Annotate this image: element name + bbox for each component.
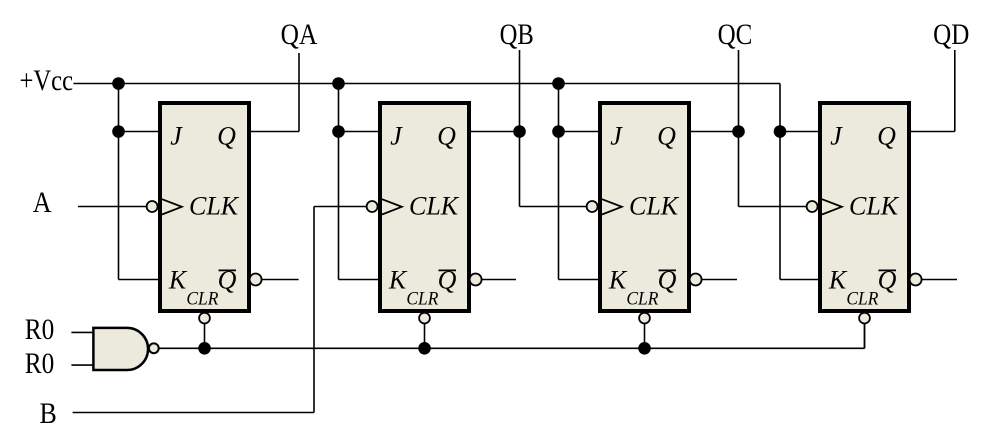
wire Q-bar output stub FF2 [482,279,516,281]
svg-text:CLR: CLR [186,288,218,309]
wire QB net: Q of FF2 to CLK of FF3 [468,131,520,133]
wire J input FF1 [119,131,162,133]
svg-text:A: A [33,186,52,219]
wire Q-bar output stub FF3 [702,279,737,281]
Q-bar output bubble FF3 [690,274,702,286]
wire Q-bar output stub FF4 [922,279,957,281]
node J-FF1 junction [112,125,125,138]
CLK inversion bubble FF4 [807,201,818,212]
svg-text:K: K [388,266,408,295]
svg-text:J: J [610,122,623,151]
Q-bar output bubble FF1 [250,274,262,286]
CLR input bubble FF2 [419,313,430,324]
wire CLR bus from NAND output [159,347,865,349]
CLK inversion bubble FF2 [367,201,378,212]
svg-text:J: J [390,122,403,151]
NAND gate G1 output bubble [149,343,159,353]
node CLR-FF2 junction [418,342,431,355]
JK flip-flop FF3 body [600,103,689,311]
wire QC net: Q of FF3 to CLK of FF4 [688,131,739,133]
Q-bar output bubble FF2 [470,274,482,286]
wire +Vcc rail horizontal [73,83,780,85]
svg-text:B: B [40,397,57,430]
svg-text:J: J [170,122,183,151]
wire K input FF1 [119,279,162,281]
wire J input FF3 [559,131,602,133]
wire Vcc rail down to J/K of FF2 [338,84,340,280]
CLK edge-trigger symbol FF3 [602,199,622,214]
wire QD output tap [908,131,955,133]
wire Q output FF1 [248,131,299,133]
CLR input bubble FF1 [199,313,210,324]
wire R0 input 2 to NAND [71,364,94,366]
wire Vcc rail down to J/K of FF1 [118,84,120,280]
node J-FF4 junction [774,125,787,138]
node QB junction [513,125,526,138]
CLK edge-trigger symbol FF2 [382,199,402,214]
CLK inversion bubble FF1 [147,201,158,212]
JK flip-flop FF1 body [160,103,249,311]
svg-text:Q: Q [217,122,236,151]
Q-bar output bubble FF4 [910,274,922,286]
wire R0 input 1 to NAND [71,331,94,333]
wire CLR stem FF2 [424,324,426,349]
node Vcc-FF1 junction [112,77,125,90]
svg-text:K: K [168,266,188,295]
node QC junction [732,125,745,138]
svg-text:+Vcc: +Vcc [20,64,74,97]
wire QA output tap [298,53,300,132]
svg-text:CLK: CLK [409,192,460,221]
JK flip-flop FF4 body [820,103,909,311]
svg-text:K: K [608,266,628,295]
wire CLR stem FF1 [204,324,206,349]
svg-text:QC: QC [718,18,753,51]
wire CLR stem FF4 [864,324,866,349]
wire K input FF2 [339,279,382,281]
svg-text:R0: R0 [25,313,55,346]
svg-text:QA: QA [281,18,318,51]
wire K input FF4 [780,279,821,281]
svg-text:Q: Q [437,122,456,151]
node J-FF2 junction [332,125,345,138]
NAND gate G1 body [93,328,148,370]
CLR input bubble FF4 [859,313,870,324]
svg-text:CLR: CLR [406,288,438,309]
CLK inversion bubble FF3 [587,201,598,212]
svg-text:K: K [828,266,848,295]
CLR input bubble FF3 [639,313,650,324]
wire K input FF3 [559,279,602,281]
CLK edge-trigger symbol FF1 [162,199,182,214]
svg-text:CLK: CLK [189,192,240,221]
svg-text:CLK: CLK [629,192,680,221]
svg-text:QB: QB [500,18,534,51]
svg-text:QD: QD [933,18,969,51]
svg-text:CLR: CLR [626,288,658,309]
wire CLR bus corner up to FF4 CLR [864,324,866,348]
wire J input FF2 [339,131,382,133]
wire input B to CLK of FF2 [73,412,314,414]
JK flip-flop FF2 body [380,103,469,311]
wire Vcc rail down to J/K of FF3 [558,84,560,280]
wire +Vcc rail corner down to FF4 J rail [779,84,781,132]
svg-text:Q: Q [877,122,896,151]
node CLR-FF1 junction [198,342,211,355]
wire input A to CLK of FF1 [78,206,147,208]
node Vcc-FF3 junction [552,77,565,90]
wire rail FF4 J to K [779,132,781,280]
wire J input FF4 [780,131,821,133]
node CLR-FF3 junction [638,342,651,355]
svg-text:Q: Q [657,122,676,151]
svg-text:CLK: CLK [849,192,900,221]
svg-text:J: J [830,122,843,151]
node Vcc-FF2 junction [332,77,345,90]
svg-text:CLR: CLR [846,288,878,309]
CLK edge-trigger symbol FF4 [822,199,842,214]
wire Q-bar output stub FF1 [262,279,299,281]
wire CLR stem FF3 [644,324,646,349]
node J-FF3 junction [552,125,565,138]
svg-text:R0: R0 [25,347,55,380]
